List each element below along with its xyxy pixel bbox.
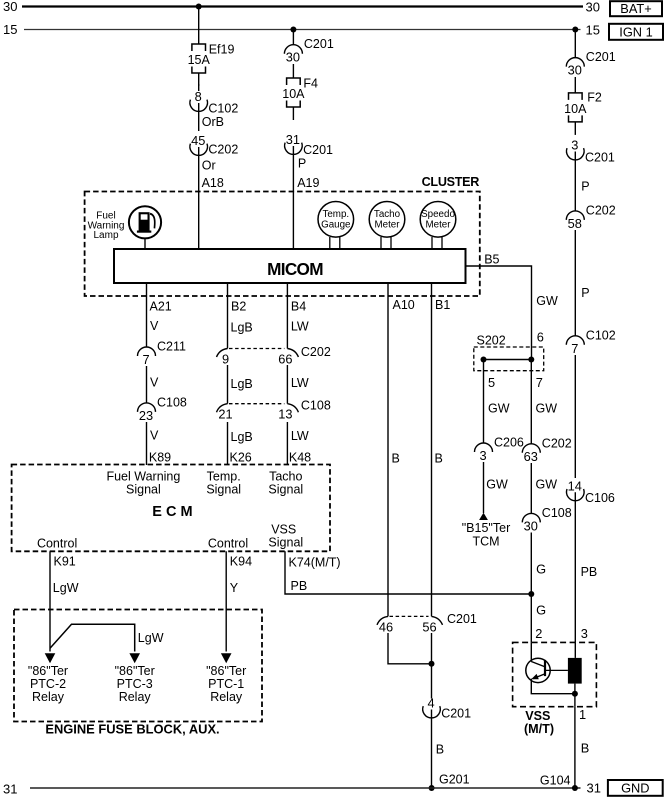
svg-text:14: 14 xyxy=(568,478,582,493)
svg-text:C108: C108 xyxy=(301,399,331,413)
svg-text:Control: Control xyxy=(37,537,77,551)
svg-text:C211: C211 xyxy=(157,340,186,354)
junction of A10 and B1 ground wires xyxy=(429,661,435,667)
speedometer legs to MICOM xyxy=(432,237,442,249)
svg-text:ENGINE FUSE BLOCK, AUX.: ENGINE FUSE BLOCK, AUX. xyxy=(45,722,219,737)
wire P from C201-3 to C202-58 xyxy=(574,152,576,211)
arrow to PTC-2 relay terminal xyxy=(45,653,56,663)
svg-text:"86"Ter: "86"Ter xyxy=(115,664,155,678)
svg-text:GND: GND xyxy=(621,780,649,795)
svg-text:"86"Ter: "86"Ter xyxy=(28,664,68,678)
svg-text:Signal: Signal xyxy=(206,483,241,497)
svg-text:Or: Or xyxy=(202,159,216,173)
wire fuse Ef19 to connector C102 pin 8 xyxy=(198,84,200,91)
connector C108 pin 23 xyxy=(138,395,187,423)
connector C202 mating dashed link xyxy=(229,348,284,350)
wire C201-30 to fuse F2 xyxy=(574,77,576,93)
svg-text:PB: PB xyxy=(581,565,598,579)
svg-text:15: 15 xyxy=(3,22,17,37)
svg-text:C202: C202 xyxy=(586,203,616,217)
temperature gauge legs to MICOM xyxy=(330,237,340,249)
svg-text:C202: C202 xyxy=(208,143,238,157)
VSS sensor label xyxy=(524,709,554,736)
wire ECM pin K91 (LgW) to PTC-2 relay xyxy=(49,551,51,651)
svg-text:C201: C201 xyxy=(304,37,334,51)
svg-text:3: 3 xyxy=(581,626,588,641)
wire LW between C202 and C108 xyxy=(286,365,288,404)
ECM input label Temp. Signal xyxy=(206,469,241,496)
svg-text:46: 46 xyxy=(379,619,393,634)
tachometer legs to MICOM xyxy=(381,237,391,249)
svg-text:Speedo: Speedo xyxy=(421,209,455,220)
svg-text:B: B xyxy=(435,452,443,466)
wire MICOM pin A21 xyxy=(146,283,148,347)
wire B from C201-56 to connector C201-4 xyxy=(431,633,433,699)
svg-text:VSS: VSS xyxy=(271,523,296,537)
svg-text:V: V xyxy=(150,319,159,333)
svg-text:30: 30 xyxy=(524,518,538,533)
svg-text:PB: PB xyxy=(291,579,308,593)
wire C201-30 to fuse F4 xyxy=(292,64,294,78)
svg-text:LgW: LgW xyxy=(138,631,164,645)
connector C102 pin 8 xyxy=(190,89,238,116)
svg-text:8: 8 xyxy=(195,89,202,104)
svg-text:Ef19: Ef19 xyxy=(209,43,235,57)
branch wire LgW to PTC-3 relay xyxy=(50,624,135,651)
VSS sensor dashed box xyxy=(513,642,597,706)
TCM destination label xyxy=(462,521,510,549)
fuse F4 10A xyxy=(282,77,318,121)
svg-text:15A: 15A xyxy=(188,53,211,67)
svg-text:7: 7 xyxy=(571,341,578,356)
svg-text:K74(M/T): K74(M/T) xyxy=(289,556,341,570)
connector C201 pin 30 xyxy=(566,50,615,78)
svg-text:31: 31 xyxy=(286,132,300,147)
connector C206 pin 3 xyxy=(475,436,524,464)
wire B from C201-46 elbow to junction xyxy=(388,633,432,664)
PTC-3 relay terminal label xyxy=(115,664,155,704)
connector C108 pin 30 xyxy=(522,506,571,534)
svg-text:G: G xyxy=(536,603,546,618)
wire OrB from C102 to C202 pin 45 xyxy=(198,103,200,131)
svg-text:(M/T): (M/T) xyxy=(524,722,554,736)
wire ECM pin K74(M/T) (PB) VSS signal xyxy=(285,551,531,594)
svg-text:C201: C201 xyxy=(303,143,333,157)
fuse F2 10A xyxy=(564,90,602,134)
svg-text:S202: S202 xyxy=(477,333,506,347)
svg-text:"86"Ter: "86"Ter xyxy=(206,664,246,678)
connector C108 pin 13 xyxy=(278,404,298,422)
svg-text:LgW: LgW xyxy=(53,581,79,595)
svg-text:Control: Control xyxy=(208,537,248,551)
svg-text:21: 21 xyxy=(218,407,232,422)
wire ECM pin K94 (Y) to PTC-1 relay xyxy=(225,551,227,651)
svg-text:K91: K91 xyxy=(54,555,76,569)
svg-text:E C M: E C M xyxy=(152,504,192,520)
svg-text:LgB: LgB xyxy=(231,321,253,335)
wire GW from S202 pin 7 to C202-63 xyxy=(530,360,532,444)
svg-text:A19: A19 xyxy=(297,176,319,190)
connector C201 pin 3 xyxy=(567,138,615,165)
svg-text:C201: C201 xyxy=(447,612,477,626)
wire Or from C202-45 into cluster pin A18 xyxy=(198,147,200,249)
svg-text:B1: B1 xyxy=(435,298,450,312)
svg-text:LgB: LgB xyxy=(231,430,253,444)
GND terminal box xyxy=(608,780,663,796)
svg-text:C201: C201 xyxy=(586,50,616,64)
svg-text:Meter: Meter xyxy=(425,220,451,231)
wire G from C108-30 to VSS junction xyxy=(530,533,532,643)
svg-text:C102: C102 xyxy=(208,102,238,116)
temperature gauge xyxy=(318,202,354,238)
svg-text:CLUSTER: CLUSTER xyxy=(422,175,480,189)
arrow to PTC-1 relay terminal xyxy=(221,653,232,663)
svg-text:30: 30 xyxy=(286,50,300,65)
connector C201 pin 56 xyxy=(422,616,442,634)
wire pickup to internal ground node xyxy=(574,684,576,707)
svg-text:"B15"Ter: "B15"Ter xyxy=(462,521,510,535)
wire MICOM pin B1 (B) down to connector C201-56 xyxy=(431,283,433,616)
svg-text:PTC-3: PTC-3 xyxy=(117,677,153,691)
svg-text:GW: GW xyxy=(536,294,558,308)
svg-text:Y: Y xyxy=(230,581,239,595)
off-page arrow to TCM xyxy=(479,513,488,520)
wire GW from C206-3 to TCM xyxy=(483,462,485,513)
svg-text:C201: C201 xyxy=(585,151,615,165)
svg-text:1: 1 xyxy=(579,707,586,722)
svg-text:G201: G201 xyxy=(439,773,470,787)
connector C202 pin 63 xyxy=(522,436,571,464)
svg-text:C106: C106 xyxy=(585,491,615,505)
svg-text:58: 58 xyxy=(568,216,582,231)
svg-text:15: 15 xyxy=(586,23,600,38)
svg-text:GW: GW xyxy=(536,402,558,416)
cluster module dashed box xyxy=(85,192,480,297)
ECM input label Tacho Signal xyxy=(268,469,303,496)
wire GW from S202 pin 5 to C206 xyxy=(483,360,485,444)
MICOM controller box xyxy=(114,249,466,283)
connector C108 pin 21 xyxy=(217,404,233,422)
svg-text:C202: C202 xyxy=(301,345,331,359)
svg-text:4: 4 xyxy=(427,696,434,711)
wire rail15 to C201 pin 30 xyxy=(292,30,294,45)
splice S202 dashed box xyxy=(474,347,544,371)
ground junction G201 xyxy=(429,785,435,791)
svg-text:GW: GW xyxy=(536,478,558,492)
svg-text:P: P xyxy=(298,157,306,171)
connector C106 pin 14 xyxy=(567,478,615,505)
wire MICOM pin A10 (B) down to connector C201-46 xyxy=(387,283,389,616)
fuel warning lamp (indicator with fuel pump icon) xyxy=(129,206,161,238)
svg-text:30: 30 xyxy=(3,0,17,14)
wire B5 from MICOM to splice S202 xyxy=(466,266,532,360)
transistor Q1 (VSS open collector output) xyxy=(526,658,550,682)
svg-text:P: P xyxy=(581,286,589,300)
svg-text:Relay: Relay xyxy=(32,690,65,704)
svg-text:10A: 10A xyxy=(564,102,587,116)
svg-text:Temp.: Temp. xyxy=(322,209,349,220)
svg-text:C201: C201 xyxy=(441,707,471,721)
ECM input label Fuel Warning Signal xyxy=(106,469,180,496)
svg-text:31: 31 xyxy=(3,782,17,797)
wire VSS pin 3 into pickup xyxy=(574,642,576,658)
svg-text:OrB: OrB xyxy=(202,115,224,129)
svg-text:3: 3 xyxy=(571,138,578,153)
svg-text:C108: C108 xyxy=(157,395,187,409)
wire fuel lamp to MICOM xyxy=(144,238,146,249)
svg-text:A21: A21 xyxy=(150,300,172,314)
wire P from C201-31 into cluster pin A19 xyxy=(292,146,294,249)
svg-text:30: 30 xyxy=(568,63,582,78)
svg-text:C108: C108 xyxy=(542,506,572,520)
svg-text:B: B xyxy=(581,741,590,756)
svg-text:G104: G104 xyxy=(540,774,571,788)
svg-text:Lamp: Lamp xyxy=(93,230,118,241)
svg-text:63: 63 xyxy=(524,449,538,464)
BAT+ terminal box xyxy=(610,1,662,16)
splice node right xyxy=(528,357,534,363)
wire V between C211 and C108 xyxy=(146,366,148,403)
svg-text:Fuel Warning: Fuel Warning xyxy=(106,469,180,483)
VSS internal junction xyxy=(572,691,578,697)
svg-text:C206: C206 xyxy=(494,436,524,450)
PTC-2 relay terminal label xyxy=(28,664,68,704)
wire LW from C108-13 to ECM pin K48 xyxy=(286,422,288,465)
svg-text:G: G xyxy=(536,562,546,577)
connector C211 pin 7 xyxy=(138,340,187,368)
wire B from VSS pin 1 to ground G104 xyxy=(574,707,576,788)
svg-text:6: 6 xyxy=(537,329,544,344)
ECM output label VSS Signal xyxy=(268,523,303,550)
wire MICOM pin B2 xyxy=(227,283,229,349)
svg-text:Gauge: Gauge xyxy=(321,220,351,231)
wire emitter to internal ground node xyxy=(531,679,575,694)
svg-text:F2: F2 xyxy=(587,90,602,104)
wire MICOM pin B4 xyxy=(286,283,288,349)
ground junction G104 xyxy=(572,785,578,791)
fuel warning lamp label xyxy=(88,211,125,242)
connector C108 mating dashed link xyxy=(229,403,284,405)
wire GW from C202-63 to C108-30 xyxy=(530,463,532,513)
wire VSS pin 2 to transistor collector xyxy=(530,642,532,661)
splice S202 internal link xyxy=(484,359,532,361)
ECM module dashed box xyxy=(12,465,330,552)
ground rail 31 xyxy=(30,787,581,789)
PTC-1 relay terminal label xyxy=(206,664,246,704)
svg-text:LgB: LgB xyxy=(231,377,253,391)
svg-text:VSS: VSS xyxy=(525,709,550,723)
svg-text:5: 5 xyxy=(488,375,495,390)
svg-text:LW: LW xyxy=(291,376,309,390)
connector C202 pin 45 xyxy=(190,133,238,157)
connector C201 pin 46 xyxy=(377,616,393,634)
junction of VSS signal wires xyxy=(528,591,534,597)
connector C202 pin 9 xyxy=(217,349,230,367)
svg-text:Tacho: Tacho xyxy=(269,469,302,483)
svg-text:45: 45 xyxy=(191,133,205,148)
svg-text:56: 56 xyxy=(422,619,436,634)
svg-text:V: V xyxy=(150,429,159,443)
wire P from C202-58 to C102-7 xyxy=(574,230,576,336)
svg-text:Relay: Relay xyxy=(210,690,243,704)
svg-text:Signal: Signal xyxy=(268,483,303,497)
wire rail30 to fuse Ef19 xyxy=(198,7,200,45)
svg-text:30: 30 xyxy=(586,0,600,14)
arrow to PTC-3 relay terminal xyxy=(129,653,140,663)
svg-text:TCM: TCM xyxy=(472,534,499,548)
power rail 30 (battery feed) xyxy=(22,5,583,7)
svg-text:B5: B5 xyxy=(484,253,499,267)
svg-text:13: 13 xyxy=(278,407,292,422)
svg-text:B4: B4 xyxy=(291,300,306,314)
svg-text:GW: GW xyxy=(486,478,508,492)
junction on rail 30 feeding fuse Ef19 xyxy=(196,4,202,10)
svg-text:F4: F4 xyxy=(303,77,318,91)
svg-text:3: 3 xyxy=(479,448,486,463)
wire LgB between C202 and C108 xyxy=(227,365,229,404)
svg-text:23: 23 xyxy=(139,408,153,423)
junction on rail 15 feeding C201 pin 30 right xyxy=(572,27,578,33)
svg-text:BAT+: BAT+ xyxy=(620,1,651,16)
svg-text:2: 2 xyxy=(535,626,542,641)
IGN 1 terminal box xyxy=(609,24,663,40)
connector C201 pin 4 xyxy=(423,696,471,721)
connector C201 mating dashed link xyxy=(390,615,429,617)
svg-text:V: V xyxy=(150,376,159,390)
fuse Ef19 15A xyxy=(188,43,235,87)
splice node left xyxy=(481,357,487,363)
svg-text:Temp.: Temp. xyxy=(207,469,241,483)
svg-text:66: 66 xyxy=(278,352,292,367)
wire B from C201-4 to ground G201 xyxy=(431,710,433,789)
tachometer gauge xyxy=(369,202,405,238)
svg-text:Signal: Signal xyxy=(268,536,303,550)
wire rail15 to C201-30 xyxy=(574,30,576,58)
svg-text:7: 7 xyxy=(142,352,149,367)
svg-text:A18: A18 xyxy=(202,176,224,190)
engine fuse block dashed box xyxy=(14,610,262,722)
svg-text:MICOM: MICOM xyxy=(267,259,323,279)
wire LgB from C108-21 to ECM pin K26 xyxy=(227,422,229,465)
svg-text:Signal: Signal xyxy=(126,483,161,497)
connector C202 pin 66 xyxy=(278,349,298,367)
wire V from C108-23 to ECM pin K89 xyxy=(146,422,148,465)
junction on rail 15 feeding connector C201 pin 30 xyxy=(290,27,296,33)
svg-text:31: 31 xyxy=(587,781,601,796)
svg-text:K94: K94 xyxy=(230,555,252,569)
svg-text:K89: K89 xyxy=(149,451,171,465)
svg-text:GW: GW xyxy=(488,402,510,416)
svg-text:P: P xyxy=(581,180,589,194)
svg-text:PTC-1: PTC-1 xyxy=(208,677,244,691)
connector C102 pin 7 xyxy=(566,328,615,356)
connector C201 pin 30 xyxy=(284,37,333,64)
svg-text:LW: LW xyxy=(291,429,309,443)
power rail 15 (ignition feed) xyxy=(24,29,581,31)
VSS pickup element (resistor block) xyxy=(568,658,582,684)
speedometer gauge xyxy=(420,202,456,238)
svg-text:C102: C102 xyxy=(586,328,616,342)
wire from C102-7 to C106-14 xyxy=(574,355,576,478)
svg-text:IGN 1: IGN 1 xyxy=(619,24,652,39)
svg-text:7: 7 xyxy=(536,375,543,390)
svg-text:K26: K26 xyxy=(230,451,252,465)
svg-text:Meter: Meter xyxy=(374,220,400,231)
svg-text:B: B xyxy=(392,452,400,466)
svg-text:Relay: Relay xyxy=(119,690,152,704)
connector C202 pin 58 xyxy=(566,203,615,231)
svg-text:PTC-2: PTC-2 xyxy=(30,677,66,691)
svg-text:C202: C202 xyxy=(542,436,572,450)
wire PB from C106-14 to VSS pin 3 xyxy=(574,492,576,642)
svg-text:LW: LW xyxy=(291,320,309,334)
svg-text:10A: 10A xyxy=(282,87,305,101)
transistor base lead to pickup xyxy=(546,669,568,671)
svg-text:B2: B2 xyxy=(231,300,246,314)
svg-text:K48: K48 xyxy=(289,451,311,465)
svg-text:9: 9 xyxy=(222,352,229,367)
svg-text:B: B xyxy=(436,743,444,757)
svg-text:A10: A10 xyxy=(393,298,415,312)
svg-text:Tacho: Tacho xyxy=(374,209,401,220)
connector C201 pin 31 xyxy=(285,132,333,157)
